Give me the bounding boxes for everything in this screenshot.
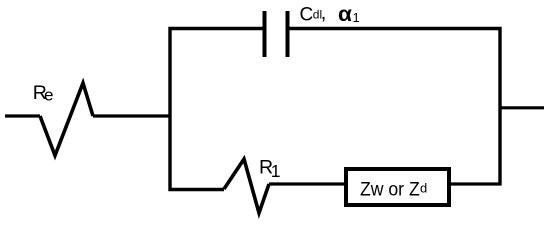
resistor R1 (zigzag) <box>224 159 269 213</box>
wire: left vertical of parallel block with top-left and bottom-left corners <box>170 29 263 190</box>
label R1 <box>259 157 280 182</box>
wire: Re to left node <box>93 114 171 117</box>
resistor Re (zigzag) <box>40 83 93 156</box>
box Zw or Zd (Warburg impedance) <box>346 169 449 205</box>
svg-text:d: d <box>420 181 427 196</box>
label Re <box>33 82 54 104</box>
svg-text:C: C <box>300 4 314 25</box>
svg-text:e: e <box>44 85 53 104</box>
wire: capacitor to top-right corner and right vertical <box>289 29 500 186</box>
svg-text:1: 1 <box>353 10 360 25</box>
label Cdl, alpha1 <box>300 2 360 26</box>
capacitor Cdl left plate <box>263 11 267 57</box>
wire: box to right vertical <box>451 182 501 185</box>
capacitor Cdl right plate <box>286 11 290 57</box>
label Zw or Zd <box>360 177 427 199</box>
svg-text:1: 1 <box>271 161 281 181</box>
wire: output stub <box>500 106 544 109</box>
svg-text:,: , <box>321 2 327 24</box>
wire: left input stub <box>5 114 40 117</box>
svg-text:α: α <box>338 2 353 26</box>
svg-text:Zw or Z: Zw or Z <box>360 177 420 199</box>
wire: R1 to Warburg box <box>269 182 346 185</box>
